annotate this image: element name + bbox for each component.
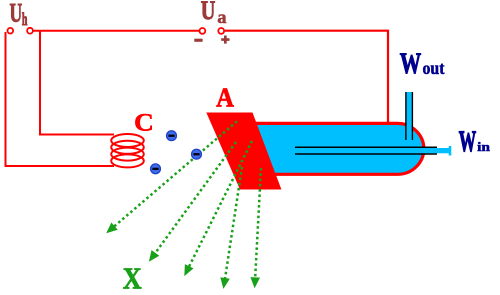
svg-text:out: out <box>423 58 445 78</box>
X-ray 2 (dashed) <box>154 142 236 255</box>
cylinder (cooled anode body) <box>252 123 424 174</box>
X-ray 1 (dashed) <box>113 121 237 227</box>
minus sign at Ua <box>194 39 202 42</box>
X-ray 3 arrowhead <box>184 264 193 276</box>
wire: from Ua right terminal to cylinder top <box>225 31 388 122</box>
wire: top from Uh right terminal to Ua left terminal <box>34 30 200 32</box>
X-ray 5 arrowhead <box>250 277 260 288</box>
Win tube (horizontal, through cylinder) <box>295 146 451 156</box>
svg-text:U: U <box>201 0 216 25</box>
electron 1 <box>167 131 177 141</box>
svg-text:C: C <box>134 107 154 136</box>
plus sign at Ua <box>221 36 229 44</box>
Wout pipe (vertical) <box>406 92 413 140</box>
svg-text:in: in <box>477 139 491 154</box>
terminal Uh left <box>8 28 14 34</box>
svg-text:W: W <box>459 125 477 158</box>
svg-text:W: W <box>400 48 422 80</box>
anode block A <box>206 113 281 190</box>
X-ray 1 arrowhead <box>106 223 118 234</box>
svg-text:X: X <box>123 262 142 295</box>
terminal Ua right <box>218 28 224 34</box>
wire: left loop from Uh left terminal down and to coil bottom <box>6 32 115 166</box>
X-ray 2 arrowhead <box>149 250 159 262</box>
X-ray 4 (dashed) <box>225 167 242 280</box>
svg-text:h: h <box>22 9 28 29</box>
X-ray 4 arrowhead <box>220 277 230 289</box>
svg-text:a: a <box>217 7 226 27</box>
X-ray 3 (dashed) <box>188 141 252 268</box>
terminal Ua left <box>200 28 206 34</box>
electron 3 <box>151 164 161 174</box>
wire: branch down to coil top <box>40 31 114 135</box>
X-ray 5 (dashed) <box>255 168 261 279</box>
svg-text:A: A <box>216 82 234 112</box>
electron 2 <box>192 149 202 159</box>
cathode coil <box>111 134 144 167</box>
terminal Uh right <box>27 28 33 34</box>
svg-text:U: U <box>10 0 23 28</box>
